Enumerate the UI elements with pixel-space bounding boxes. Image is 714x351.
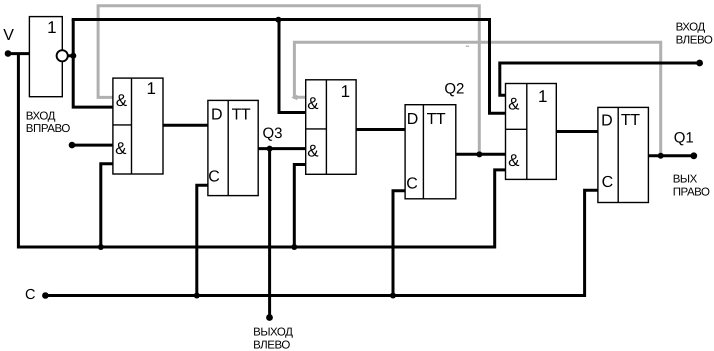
svg-text:D: D — [407, 111, 419, 128]
node top rail junction dot — [275, 17, 281, 23]
svg-text:ВХОД: ВХОД — [676, 21, 706, 33]
wire C clock rail to FF3 C input — [45, 190, 598, 295]
svg-text:C: C — [602, 174, 614, 191]
flip-flop FF1 — [208, 100, 258, 195]
node V terminal dot — [5, 50, 12, 57]
wire Q3 down to output-left terminal — [268, 149, 271, 315]
svg-text:Q2: Q2 — [444, 81, 464, 98]
node Q3 junction dot — [267, 146, 273, 152]
svg-text:C: C — [25, 287, 35, 303]
wire stage2 OR output to FF2 D — [356, 128, 406, 131]
svg-text:Q3: Q3 — [262, 125, 282, 142]
svg-text:&: & — [508, 95, 520, 114]
svg-text:1: 1 — [538, 87, 547, 106]
svg-text:1: 1 — [47, 18, 56, 37]
AND-OR gate stage3 — [506, 84, 557, 180]
node Q1 junction dot — [658, 153, 664, 159]
node V rail junction dot stage2 — [291, 244, 297, 250]
svg-text:ВЫХ: ВЫХ — [673, 173, 698, 185]
wire FF2 C input riser — [393, 191, 406, 296]
svg-text:ВЫХОД: ВЫХОД — [253, 327, 293, 339]
wire Q1 output to out-right terminal — [648, 154, 694, 157]
svg-text:&: & — [116, 91, 128, 110]
node out-right terminal dot — [690, 152, 697, 159]
svg-text:&: & — [508, 151, 520, 170]
wire input left terminal to stage3 upper AND — [500, 63, 700, 95]
svg-text:D: D — [211, 107, 223, 124]
wire Q3 output to stage2 lower AND — [258, 147, 305, 150]
svg-text:D: D — [601, 112, 613, 129]
svg-text:&: & — [307, 141, 319, 160]
node input-left terminal dot — [696, 60, 703, 67]
svg-text:&: & — [115, 139, 127, 158]
node V rail junction dot stage1 — [98, 244, 104, 250]
AND-OR gate stage2 — [306, 80, 356, 175]
wire input right terminal to stage1 lower AND — [72, 144, 113, 147]
wire V riser to stage2 lower AND — [294, 165, 305, 248]
node NOT-V junction dot — [70, 53, 76, 59]
node C rail junction dot FF2 — [390, 293, 396, 299]
wire gray feedback Q2 to stage1 upper AND — [98, 6, 479, 155]
wire NOT-V top rail to stage3 upper AND input — [72, 20, 506, 114]
flip-flop FF2 — [405, 105, 456, 199]
wire stage1 OR output to FF1 D — [163, 124, 208, 127]
svg-text:Q1: Q1 — [674, 130, 694, 147]
wire V down to bottom V rail and up to stage3 lower AND — [18, 54, 505, 247]
node output-left terminal dot — [266, 314, 273, 321]
svg-text:ВЛЕВО: ВЛЕВО — [676, 35, 713, 47]
flip-flop FF3 — [598, 107, 649, 202]
inverter U1 — [29, 17, 67, 97]
svg-text:1: 1 — [146, 79, 155, 98]
wire stage3 OR output to FF3 D — [556, 130, 598, 133]
wire NOT-V branch to stage2 upper AND input — [279, 20, 306, 113]
label output right — [673, 173, 710, 198]
node Q2 junction dot — [476, 151, 482, 157]
wire gray feedback Q1 to stage2 upper AND — [294, 42, 660, 156]
gray arrowhead at stage2 upper AND input — [291, 95, 297, 101]
node C terminal dot — [42, 292, 49, 299]
wire Q2 output to stage3 lower AND — [456, 153, 506, 156]
wire FF1 C input riser — [197, 185, 208, 295]
label input right — [26, 111, 71, 136]
svg-text:ВЛЕВО: ВЛЕВО — [253, 340, 290, 351]
svg-text:TT: TT — [621, 112, 640, 129]
wire NOT-V vertical and stage1 upper AND input — [73, 20, 113, 108]
svg-text:ПРАВО: ПРАВО — [673, 187, 710, 199]
svg-text:1: 1 — [341, 82, 350, 101]
svg-text:TT: TT — [232, 106, 251, 123]
wire V input to inverter — [8, 52, 30, 55]
svg-text:ВПРАВО: ВПРАВО — [26, 123, 71, 135]
gray tick artifact under gray feedback crossing — [466, 46, 469, 47]
node input-right terminal dot — [69, 142, 76, 149]
svg-text:C: C — [208, 168, 220, 185]
AND-OR gate stage1 — [113, 78, 163, 174]
wire inverter output to NOT-V node — [67, 54, 74, 57]
svg-text:&: & — [307, 94, 319, 113]
label output left — [253, 327, 293, 351]
node C rail junction dot FF1 — [194, 293, 200, 299]
wire V riser to stage1 lower AND — [101, 164, 113, 247]
svg-text:ВХОД: ВХОД — [26, 111, 56, 123]
svg-text:TT: TT — [427, 111, 446, 128]
svg-text:V: V — [3, 27, 14, 44]
label input left — [676, 21, 713, 46]
svg-text:C: C — [406, 176, 418, 193]
